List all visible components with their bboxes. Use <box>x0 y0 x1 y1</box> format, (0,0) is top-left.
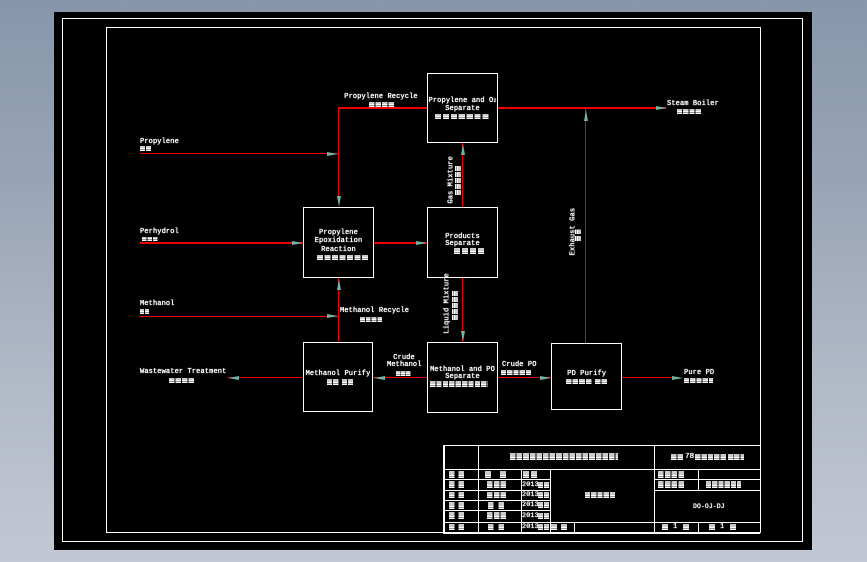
box: Products Separate <box>427 207 498 278</box>
wire: crude PO <box>498 377 551 378</box>
wire: separator to steam boiler horizontal <box>498 107 667 108</box>
title block row lines (left section) <box>443 479 550 480</box>
row1: banji / qianzi / riqi <box>449 471 465 478</box>
right cell: sheji xiangmu <box>658 471 684 478</box>
wire: exhaust gas vertical <box>585 107 586 343</box>
label: Crude Methanol <box>387 355 421 362</box>
right cell: sheji jieduan <box>658 481 684 488</box>
arrow: recycle down into reactor <box>337 196 341 207</box>
title block bottom row top line <box>443 522 760 523</box>
title text: project name (right header) <box>671 454 684 461</box>
box: Methanol and PO Separate <box>427 342 498 413</box>
label: Methanol Recycle <box>340 308 409 315</box>
box: PD Purify <box>551 343 623 411</box>
arrow: methanol recycle up into reactor <box>337 279 341 290</box>
arrow: gas mixture up into O2 separator <box>461 144 465 155</box>
arrow: pure PO right <box>672 376 683 380</box>
arrow: exhaust gas up <box>584 110 588 121</box>
box: Methanol Purify <box>303 342 373 412</box>
outer border frame <box>62 18 803 542</box>
wire: propylene feed <box>140 153 338 154</box>
row6: shending / name / date / bili <box>449 524 465 531</box>
label: Propylene feed <box>140 139 179 146</box>
label: Wastewater Treatment <box>140 369 226 376</box>
label: Exhaust Gas (vertical) <box>570 205 577 257</box>
middle cell: drawing name <box>585 492 615 498</box>
row2: sheji / name / date <box>449 481 465 488</box>
inner border frame <box>106 27 761 533</box>
arrow: crude PO right <box>540 376 551 380</box>
wire: perhydrol feed <box>140 242 303 243</box>
label: Pure PD <box>684 370 714 377</box>
title block v-lines <box>478 445 479 534</box>
arrow: methanol feed right <box>327 314 338 318</box>
arrow: into steam boiler <box>656 106 667 110</box>
title block frame <box>443 445 760 447</box>
wire: liquid mixture vertical <box>462 278 463 343</box>
wire: pure PO out <box>622 377 672 378</box>
arrow: liquid mixture down <box>461 331 465 342</box>
sheet numbers <box>662 524 669 531</box>
label: Liquid Mixture (vertical) <box>444 278 451 334</box>
label: Methanol feed <box>140 301 175 308</box>
label: Perhydrol <box>140 229 179 236</box>
box: Propylene Epoxidation Reaction <box>303 207 374 278</box>
row4: jiaohe / name / date <box>449 502 465 509</box>
drawing number <box>693 503 725 510</box>
arrow: wastewater left <box>228 376 239 380</box>
arrow: perhydrol into reactor <box>292 241 303 245</box>
title text: school / class / name header <box>510 453 618 460</box>
wire: wastewater <box>228 377 303 378</box>
wire: reactor to products separate <box>374 242 427 243</box>
wire: gas mixture vertical <box>462 143 463 207</box>
label: Gas Mixture (vertical) <box>448 158 455 204</box>
label: Propylene Recycle <box>344 94 418 101</box>
wire: methanol recycle vertical <box>338 278 339 342</box>
arrow: propylene feed right <box>327 152 338 156</box>
wire: methanol feed <box>140 316 338 317</box>
arrow: crude methanol left <box>374 376 385 380</box>
box: Propylene and O2 Separate <box>427 73 498 143</box>
label: Steam Boiler <box>667 101 719 108</box>
arrow: into products separate <box>416 241 427 245</box>
row5: shenhe / name / date <box>449 512 465 519</box>
title block row lines (right section) <box>654 479 760 480</box>
wire: propylene recycle horizontal <box>338 107 427 108</box>
row3: zhitu / name / date <box>449 492 465 499</box>
label: Crude PO <box>502 362 537 369</box>
title block h-line under header <box>443 469 760 470</box>
wire: propylene recycle vertical <box>338 107 339 198</box>
wire: crude methanol <box>373 377 427 378</box>
